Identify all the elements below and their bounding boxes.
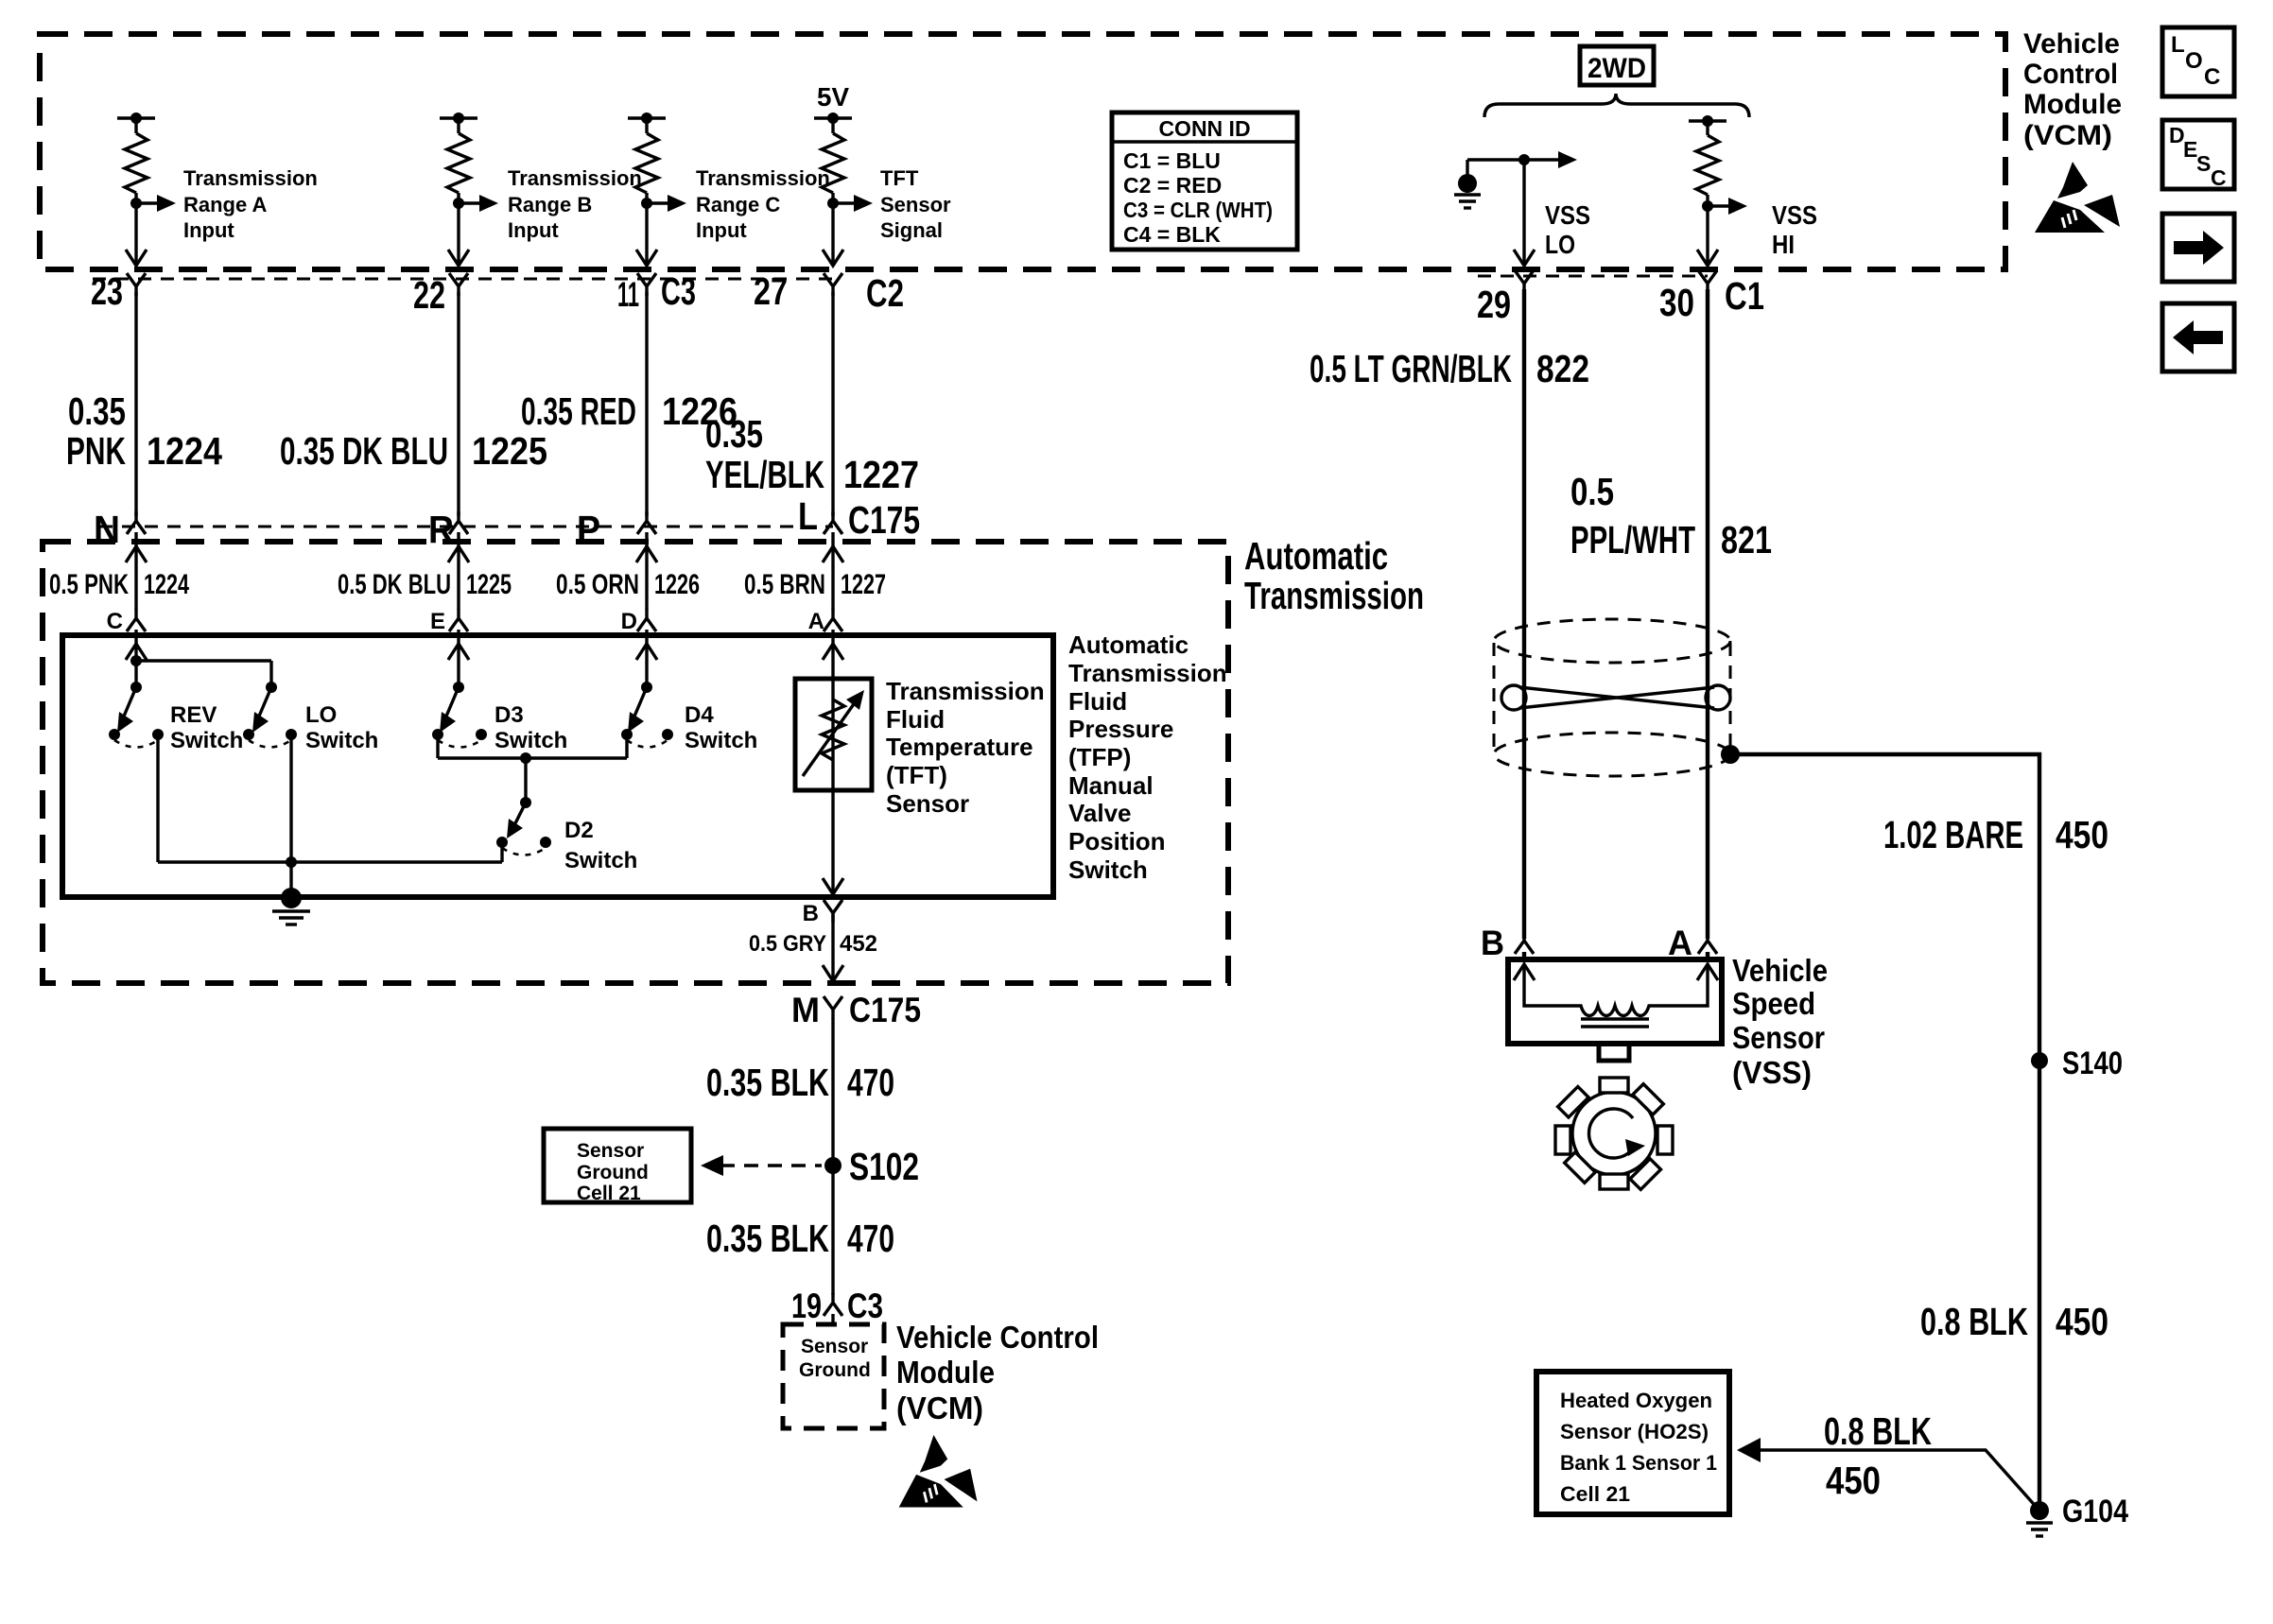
svg-text:450: 450 — [1826, 1459, 1881, 1502]
svg-text:TFT: TFT — [880, 166, 919, 190]
svg-text:822: 822 — [1536, 347, 1589, 390]
svg-text:M: M — [791, 991, 820, 1029]
wire D3-D4 link with junction — [438, 752, 627, 803]
resistor R-VSSHI (VSS HI pull-up) — [1689, 115, 1747, 266]
wire LO contact down to ground — [289, 734, 292, 894]
fork terminal C — [127, 609, 146, 631]
fork terminal pin 27 — [824, 273, 842, 296]
svg-text:0.5 GRY: 0.5 GRY — [749, 931, 826, 957]
svg-text:0.35 BLK: 0.35 BLK — [706, 1217, 829, 1260]
svg-text:0.35: 0.35 — [705, 412, 763, 456]
svg-text:L: L — [798, 494, 818, 538]
svg-text:Automatic: Automatic — [1244, 534, 1388, 578]
svg-text:Transmission: Transmission — [508, 166, 642, 190]
svg-text:30: 30 — [1659, 281, 1694, 324]
connector line (VCM C1) thin dashed — [1478, 275, 1708, 278]
svg-text:0.5 ORN: 0.5 ORN — [556, 569, 639, 600]
svg-text:(TFT): (TFT) — [886, 761, 947, 789]
fork terminal pin 11 — [637, 273, 656, 296]
left-arrow legend box — [2162, 303, 2234, 371]
svg-text:Manual: Manual — [1068, 771, 1154, 800]
wire stub into sensor ground box — [831, 1314, 834, 1325]
svg-text:C: C — [2211, 165, 2227, 190]
svg-text:Sensor: Sensor — [1732, 1020, 1825, 1055]
svg-text:Range A: Range A — [183, 193, 268, 216]
Automatic Transmission dashed boundary box — [43, 542, 1228, 983]
svg-text:29: 29 — [1477, 283, 1511, 326]
fork terminal C175 P — [637, 511, 656, 534]
svg-text:YEL/BLK: YEL/BLK — [705, 453, 824, 496]
label: Transmission Fluid Temperature (TFT) Sensor — [886, 677, 1045, 818]
svg-text:11: 11 — [617, 275, 639, 314]
svg-text:C2 = RED: C2 = RED — [1123, 173, 1222, 198]
svg-text:LO: LO — [1545, 230, 1575, 259]
svg-text:Fluid: Fluid — [886, 705, 945, 734]
svg-text:E: E — [430, 609, 445, 634]
svg-text:R: R — [428, 508, 454, 551]
fork terminal C175 N — [127, 511, 146, 534]
svg-text:Transmission: Transmission — [183, 166, 318, 190]
svg-text:0.5 PNK: 0.5 PNK — [49, 569, 129, 600]
svg-text:470: 470 — [847, 1217, 894, 1260]
wire 1226 RED (pin 11 to C175 P) — [645, 292, 648, 516]
fork terminal pin 30 — [1698, 270, 1717, 293]
label: Automatic Transmission Fluid Pressure (TFP) Manual Valve Position Switch — [1068, 631, 1227, 884]
svg-text:VSS: VSS — [1772, 200, 1817, 230]
svg-text:452: 452 — [840, 931, 877, 957]
svg-text:Input: Input — [183, 218, 234, 242]
svg-text:D3: D3 — [495, 702, 524, 728]
TFT sensor (variable resistor) — [795, 679, 872, 790]
svg-text:C3: C3 — [661, 269, 696, 313]
Sensor Ground Cell 21 reference box — [544, 1129, 691, 1204]
wire 1225 DK BLU (pin 22 to C175 R) — [457, 292, 460, 516]
svg-text:Control: Control — [2023, 59, 2118, 90]
svg-text:450: 450 — [2056, 1300, 2108, 1343]
svg-text:Fluid: Fluid — [1068, 687, 1127, 716]
VSS LO node: wire, junction, arrow — [1467, 151, 1577, 266]
wire E inside box with up arrow — [448, 630, 469, 687]
Heated Oxygen Sensor reference box — [1536, 1372, 1729, 1514]
svg-text:0.35 BLK: 0.35 BLK — [706, 1061, 829, 1104]
svg-text:C175: C175 — [848, 498, 920, 542]
D2 switch — [496, 797, 551, 855]
wire C inside box with up arrow — [126, 630, 147, 687]
svg-text:PPL/WHT: PPL/WHT — [1570, 518, 1695, 561]
svg-text:0.5 DK BLU: 0.5 DK BLU — [338, 569, 451, 600]
VSS mounting tab — [1599, 1044, 1629, 1061]
twisted pair symbol — [1501, 685, 1730, 710]
fork terminal pin 22 — [449, 273, 468, 296]
CONN ID table — [1112, 112, 1297, 250]
svg-text:0.35: 0.35 — [68, 389, 126, 433]
svg-text:D4: D4 — [685, 702, 714, 728]
resistor R-TFT (TFT sensor pull-up to 5V) — [814, 112, 873, 266]
fork terminal A — [824, 609, 842, 631]
svg-text:C175: C175 — [849, 991, 921, 1029]
VSS pickup coil inside — [1514, 964, 1718, 1027]
svg-text:Ground: Ground — [577, 1162, 649, 1183]
D3 switch — [432, 682, 487, 748]
wire 821 PPL/WHT (pin 30 down) — [1706, 289, 1709, 939]
svg-text:Pressure: Pressure — [1068, 715, 1173, 743]
svg-text:1227: 1227 — [843, 453, 919, 496]
svg-text:0.8 BLK: 0.8 BLK — [1824, 1409, 1932, 1453]
svg-text:Cell 21: Cell 21 — [577, 1183, 641, 1204]
ground symbol (VSS LO internal) — [1454, 160, 1481, 208]
svg-text:A: A — [1668, 924, 1692, 962]
svg-text:PNK: PNK — [66, 429, 126, 473]
fork terminal pin 29 — [1515, 270, 1534, 293]
ESD symbol (top right) — [2035, 162, 2120, 233]
splice S140 — [2031, 1052, 2048, 1069]
svg-text:Temperature: Temperature — [886, 733, 1033, 761]
svg-text:821: 821 — [1721, 518, 1772, 561]
svg-text:Sensor (HO2S): Sensor (HO2S) — [1560, 1420, 1709, 1443]
svg-text:Sensor: Sensor — [577, 1140, 644, 1162]
svg-text:C3: C3 — [847, 1287, 883, 1325]
svg-text:HI: HI — [1772, 230, 1795, 259]
svg-text:Switch: Switch — [1068, 855, 1148, 884]
svg-text:Sensor: Sensor — [880, 193, 951, 216]
svg-text:C1 = BLU: C1 = BLU — [1123, 148, 1221, 173]
svg-text:(VSS): (VSS) — [1732, 1055, 1812, 1090]
svg-text:470: 470 — [847, 1061, 894, 1104]
internal ground symbol — [272, 888, 310, 924]
svg-text:Ground: Ground — [799, 1359, 871, 1381]
wire 1224 PNK (pin 23 to C175 N) — [134, 292, 137, 516]
svg-text:Cell 21: Cell 21 — [1560, 1482, 1630, 1506]
svg-text:N: N — [94, 508, 120, 551]
Sensor Ground dashed box (VCM) — [783, 1324, 884, 1428]
fork terminal C175 R — [449, 511, 468, 534]
svg-text:Switch: Switch — [170, 728, 243, 753]
2WD tag box — [1580, 46, 1654, 85]
ground G104 — [2026, 1501, 2053, 1536]
splice S102 — [824, 1157, 842, 1174]
wire REV contact down to bus — [156, 734, 159, 862]
resistor R-A (Transmission Range A pull-up) — [117, 112, 176, 266]
down arrow at AT box exit — [823, 965, 843, 981]
wire stub A with up arrow — [823, 532, 843, 610]
svg-text:B: B — [803, 901, 819, 926]
svg-text:C3 = CLR (WHT): C3 = CLR (WHT) — [1123, 198, 1273, 222]
common bus wire — [158, 856, 502, 868]
svg-text:5V: 5V — [817, 82, 849, 112]
wire stub E with up arrow — [448, 532, 469, 610]
svg-text:Automatic: Automatic — [1068, 631, 1189, 659]
svg-text:0.35 RED: 0.35 RED — [521, 389, 636, 433]
connector line (VCM C3/C2) thin dashed — [93, 278, 833, 281]
REV switch — [109, 682, 164, 748]
svg-text:D2: D2 — [564, 818, 594, 843]
svg-text:1225: 1225 — [472, 429, 547, 473]
wire stubs into VSS box — [1522, 952, 1526, 960]
svg-text:Switch: Switch — [305, 728, 378, 753]
svg-text:Range C: Range C — [696, 193, 780, 216]
svg-text:Range B: Range B — [508, 193, 592, 216]
svg-text:Switch: Switch — [685, 728, 757, 753]
svg-text:0.5: 0.5 — [1570, 470, 1614, 513]
reluctor gear wheel — [1533, 1052, 1694, 1214]
svg-text:0.8 BLK: 0.8 BLK — [1920, 1300, 2028, 1343]
svg-text:23: 23 — [91, 269, 123, 313]
wire 1227 YEL/BLK (pin 27 to C175 L) — [831, 292, 834, 516]
svg-text:2WD: 2WD — [1588, 53, 1646, 84]
label: Vehicle Speed Sensor (VSS) — [1732, 953, 1828, 1090]
wire 470 BLK (upper) — [831, 1018, 834, 1295]
fork terminal VSS A — [1698, 931, 1717, 954]
svg-text:Module: Module — [2023, 89, 2122, 120]
TFP switch assembly solid box — [62, 635, 1053, 897]
svg-text:Sensor: Sensor — [801, 1336, 868, 1357]
bare drain wire 450 (horizontal + down) — [1730, 754, 2039, 1511]
wire 822 LT GRN/BLK (pin 29 down) — [1522, 289, 1526, 939]
right-arrow legend box — [2162, 214, 2234, 282]
svg-text:Position: Position — [1068, 827, 1166, 855]
wire D4 contact down — [625, 734, 628, 758]
svg-text:L: L — [2171, 32, 2185, 58]
svg-text:(VCM): (VCM) — [2023, 120, 2112, 151]
wire/junction from C to LO switch pivot — [130, 655, 271, 687]
dashed arrow to Sensor Ground cell — [701, 1155, 822, 1176]
svg-text:1226: 1226 — [654, 569, 700, 600]
shield side dashes — [1493, 643, 1496, 754]
svg-text:Speed: Speed — [1732, 986, 1815, 1021]
fork terminal VSS B — [1515, 931, 1534, 954]
connector line C175 thin dashed — [99, 526, 833, 528]
svg-text:Bank 1 Sensor 1: Bank 1 Sensor 1 — [1560, 1451, 1717, 1475]
wire stub C (into AT box) with up arrow — [126, 532, 147, 610]
svg-text:C2: C2 — [866, 271, 904, 315]
svg-text:C: C — [107, 609, 123, 634]
svg-text:Vehicle: Vehicle — [1732, 953, 1828, 988]
shield top dashed ellipse — [1494, 619, 1730, 663]
svg-text:C1: C1 — [1725, 274, 1764, 318]
VCM module dashed boundary box — [40, 34, 2005, 269]
svg-text:1.02 BARE: 1.02 BARE — [1883, 813, 2023, 856]
svg-text:Valve: Valve — [1068, 799, 1132, 827]
svg-text:P: P — [577, 508, 600, 551]
svg-text:(TFP): (TFP) — [1068, 743, 1131, 771]
fork terminal pin 23 — [127, 273, 146, 296]
resistor R-B (Transmission Range B pull-up) — [440, 112, 498, 266]
svg-text:Input: Input — [508, 218, 559, 242]
svg-text:27: 27 — [754, 269, 788, 313]
svg-text:450: 450 — [2056, 813, 2108, 856]
wire D2 contact down to bus — [500, 842, 503, 862]
LOC legend box — [2162, 27, 2234, 96]
svg-text:0.5 LT GRN/BLK: 0.5 LT GRN/BLK — [1310, 347, 1512, 390]
svg-text:A: A — [808, 609, 824, 634]
svg-text:0.5 BRN: 0.5 BRN — [744, 569, 825, 600]
shield bottom dashed ellipse — [1494, 733, 1730, 776]
wire 450 BLK to HO2S with arrowhead — [1737, 1438, 2039, 1511]
svg-text:1227: 1227 — [841, 569, 886, 600]
Vehicle Speed Sensor box — [1508, 959, 1722, 1044]
svg-text:S102: S102 — [849, 1145, 919, 1188]
D4 switch — [621, 682, 673, 748]
svg-text:1225: 1225 — [466, 569, 512, 600]
svg-text:S140: S140 — [2062, 1045, 2123, 1081]
svg-text:Vehicle: Vehicle — [2023, 28, 2120, 60]
svg-text:1224: 1224 — [147, 429, 222, 473]
shield drain junction — [1721, 745, 1740, 764]
brace under 2WD — [1484, 94, 1749, 117]
svg-text:O: O — [2185, 48, 2203, 74]
wire A inside box with up arrow — [823, 630, 843, 894]
svg-text:CONN ID: CONN ID — [1158, 116, 1250, 141]
svg-text:Input: Input — [696, 218, 747, 242]
svg-text:Transmission: Transmission — [1244, 574, 1424, 617]
svg-text:(VCM): (VCM) — [896, 1391, 983, 1425]
fork terminal D — [637, 609, 656, 631]
svg-text:1224: 1224 — [144, 569, 189, 600]
svg-text:Sensor: Sensor — [886, 789, 969, 818]
wire D3 contact down — [436, 734, 439, 758]
svg-text:REV: REV — [170, 702, 217, 728]
ESD symbol (bottom) — [899, 1435, 978, 1508]
svg-text:Transmission: Transmission — [1068, 659, 1227, 687]
svg-text:C4 = BLK: C4 = BLK — [1123, 222, 1221, 247]
svg-text:Switch: Switch — [564, 848, 637, 873]
svg-text:Transmission: Transmission — [886, 677, 1045, 705]
svg-text:LO: LO — [305, 702, 337, 728]
svg-text:Signal: Signal — [880, 218, 943, 242]
DESC legend box — [2162, 120, 2234, 190]
svg-text:19: 19 — [791, 1287, 822, 1325]
svg-text:Transmission: Transmission — [696, 166, 830, 190]
svg-text:S: S — [2196, 151, 2211, 176]
wire stub D with up arrow — [636, 532, 657, 610]
svg-text:0.35 DK BLU: 0.35 DK BLU — [280, 429, 448, 473]
svg-text:VSS: VSS — [1545, 200, 1590, 230]
svg-text:Switch: Switch — [495, 728, 567, 753]
fork terminal B — [824, 900, 842, 923]
svg-text:Module: Module — [896, 1355, 995, 1390]
fork terminal 19 C3 — [824, 1293, 842, 1316]
wire 452 GRY (B to C175 M) — [831, 913, 834, 979]
svg-text:B: B — [1481, 924, 1504, 962]
svg-text:G104: G104 — [2062, 1494, 2128, 1529]
resistor R-C (Transmission Range C pull-up) — [628, 112, 686, 266]
svg-text:D: D — [621, 609, 637, 634]
svg-text:C: C — [2204, 64, 2220, 90]
LO switch — [243, 682, 297, 748]
fork terminal C175 L — [824, 511, 842, 534]
fork terminal E — [449, 609, 468, 631]
svg-text:Heated Oxygen: Heated Oxygen — [1560, 1389, 1712, 1412]
svg-text:Vehicle Control: Vehicle Control — [896, 1320, 1099, 1355]
fork terminal M C175 — [824, 996, 842, 1019]
svg-text:22: 22 — [413, 273, 445, 317]
wire D inside box with up arrow — [636, 630, 657, 687]
